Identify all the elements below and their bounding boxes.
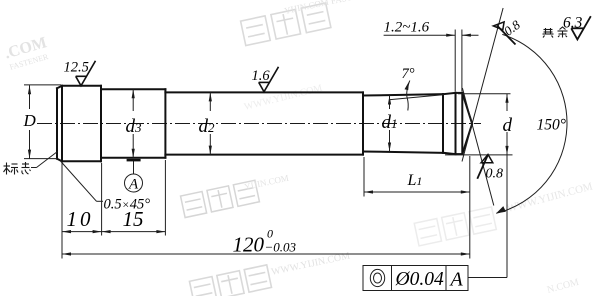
watermark middle 易紧通 (181, 180, 260, 217)
150 deg arc (496, 34, 567, 213)
text biaozhi 标志 (4, 162, 31, 175)
taper seat bottom (443, 153, 456, 154)
datum stem (133, 161, 135, 175)
标 (6, 163, 8, 175)
120 left ext (61, 163, 63, 259)
band right edge (461, 93, 463, 154)
d1 dimension line (389, 96, 391, 110)
L1 arrows (364, 190, 373, 193)
svg-text:Ø0.04: Ø0.04 (395, 269, 444, 290)
arrowheads (28, 34, 509, 256)
band top (456, 92, 463, 94)
1.2~1.6 dim line (384, 34, 456, 36)
其 (545, 28, 547, 34)
svg-text:6.3: 6.3 (563, 15, 583, 32)
watermark mid-right (414, 207, 496, 246)
roughness symbol 0.8 lower (477, 154, 493, 178)
120 dim line (62, 253, 470, 255)
datum circle A (125, 174, 143, 192)
watermark top center 易紧通 (241, 3, 331, 46)
d1 arrows (388, 96, 391, 105)
tip extension line (469, 156, 471, 259)
construction line upper (cone surface ext) (462, 8, 503, 162)
svg-text:12.5: 12.5 (64, 60, 89, 76)
svg-text:1.6: 1.6 (252, 68, 271, 84)
d bottom extension (445, 154, 513, 156)
d3 arrows (132, 89, 135, 98)
d dimension + tolerance leader vertical (506, 94, 508, 111)
tolerance leader horizontal (468, 277, 507, 279)
cone top (462, 93, 472, 123)
svg-text:A: A (449, 269, 464, 291)
svg-text:A: A (128, 177, 139, 193)
120 arrows (62, 252, 71, 255)
7 deg construction line (389, 95, 444, 100)
shaft outline (57, 86, 472, 162)
watermark top-left COM (3, 34, 52, 72)
10/15 arrows (62, 230, 71, 233)
svg-text:d2: d2 (199, 116, 216, 137)
svg-text:d3: d3 (126, 116, 143, 137)
svg-text:150°: 150° (537, 117, 566, 134)
section D top (62, 85, 101, 87)
svg-text:10: 10 (67, 207, 94, 231)
section D bottom (62, 160, 101, 162)
D top extension line (24, 84, 61, 86)
top chamfer (57, 86, 62, 89)
roughness symbol 1.6 (259, 67, 279, 92)
taper seat top (443, 93, 456, 94)
tolerance frame (363, 266, 468, 291)
band bottom (456, 153, 463, 155)
svg-text:0.8: 0.8 (486, 167, 504, 182)
centerline (37, 123, 481, 125)
d2 dimension line (209, 92, 211, 111)
svg-text:L1: L1 (407, 172, 423, 189)
left rim face (56, 88, 58, 158)
svg-text:7°: 7° (402, 66, 415, 82)
concentricity symbol (370, 269, 384, 286)
watermark bottom 易紧通 (189, 265, 271, 296)
biaozhi leader (31, 167, 37, 169)
step D/d3 (100, 86, 102, 162)
chamfer leader (60, 161, 97, 202)
section d3 top (101, 88, 165, 90)
D bottom extension line (24, 158, 57, 160)
1.2~1.6 right ext (461, 30, 463, 92)
7 deg leader arc (407, 81, 410, 111)
section d2 top (165, 91, 363, 93)
d2 arrows (209, 92, 212, 101)
step d3/d2 (164, 89, 166, 157)
datum bar (127, 159, 141, 162)
band left edge (455, 93, 457, 154)
svg-text:1.2~1.6: 1.2~1.6 (384, 20, 430, 36)
construction line lower (cone surface ext) (462, 88, 493, 206)
chamfer edge line (61, 86, 63, 162)
10/15 dim line (62, 231, 165, 233)
svg-text:D: D (23, 111, 37, 130)
section d3 bottom (101, 157, 165, 159)
roughness symbol 0.8 rotated on cone line (493, 22, 515, 45)
svg-text:120: 120 (233, 233, 265, 257)
L1 dim line (364, 191, 470, 193)
svg-text:15: 15 (123, 207, 144, 231)
section d2 bottom (165, 154, 363, 156)
svg-text:−0.03: −0.03 (265, 240, 297, 255)
cone bottom (462, 124, 472, 154)
D arrows (28, 85, 31, 94)
svg-text:0: 0 (267, 227, 273, 241)
roughness symbol 6.3 (rest) (571, 16, 591, 39)
svg-text:d: d (503, 115, 513, 136)
svg-text:d1: d1 (382, 112, 398, 133)
L1 left ext (363, 157, 365, 197)
d top extension (458, 93, 511, 95)
1.2~1.6 arrows (446, 34, 455, 37)
15 right ext (164, 160, 166, 236)
section d1 bottom (363, 152, 443, 153)
step d2/d1 (362, 92, 364, 154)
其余 characters (543, 27, 568, 38)
cone tip facet (471, 123, 473, 124)
bottom chamfer (57, 159, 62, 162)
志 (25, 162, 27, 168)
1.2~1.6 left ext (454, 30, 456, 92)
section d1 top (363, 94, 443, 95)
d arrows (505, 94, 508, 103)
150 arc arrow (496, 206, 506, 213)
7 deg leader arrow (405, 82, 410, 91)
roughness symbol 12.5 (76, 61, 96, 86)
余 (560, 27, 566, 30)
10 mid ext (101, 163, 103, 236)
collar line (442, 94, 444, 153)
d3 dimension line (132, 89, 134, 111)
D dimension line (29, 85, 31, 109)
